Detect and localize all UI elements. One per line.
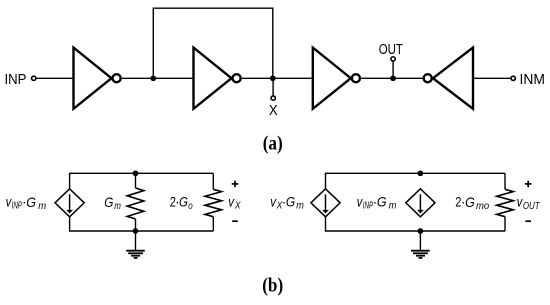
wire node A to U2 (153, 77, 193, 79)
svg-text:OUT: OUT (379, 41, 403, 58)
terminal OUT (391, 57, 395, 61)
svg-text:G: G (179, 195, 188, 210)
svg-text:v: v (270, 195, 276, 210)
wire node X to U3 (273, 77, 313, 79)
wire U1 to node A (122, 77, 154, 79)
svg-text:mo: mo (476, 201, 490, 212)
svg-text:m: m (38, 201, 46, 212)
wire U4 to terminal INM (473, 77, 511, 79)
wire top rail left circuit (70, 173, 214, 189)
terminal INP (32, 76, 36, 80)
current source I2 vX*Gm (311, 189, 340, 217)
wire node X to terminal X (272, 78, 274, 95)
label minus vX (232, 220, 238, 222)
node bottom Gm (133, 228, 139, 234)
svg-text:INM: INM (520, 72, 545, 89)
wire U3 to node OUT (361, 77, 393, 79)
node bottom I3 (418, 228, 424, 234)
node OUT (390, 75, 396, 81)
inverter U3 (313, 48, 360, 109)
svg-text:INP: INP (5, 70, 27, 87)
svg-text:v: v (228, 195, 234, 210)
inverter U4 (424, 48, 473, 109)
node A (150, 75, 156, 81)
resistor R3 2*Gmo (497, 173, 514, 231)
svg-text:G: G (104, 195, 113, 210)
terminal X (271, 96, 275, 100)
resistor R1 Gm (127, 173, 144, 231)
svg-text:m: m (296, 200, 304, 211)
svg-text:G: G (377, 194, 387, 210)
svg-text:OUT: OUT (523, 200, 541, 211)
svg-text:INP: INP (12, 199, 23, 211)
feedback wire node A to node X (153, 8, 272, 78)
label Gm (104, 195, 121, 211)
svg-text:v: v (517, 194, 523, 209)
terminal INM (511, 76, 515, 80)
label plus vOUT (525, 181, 532, 188)
svg-text:G: G (286, 194, 295, 210)
wire node OUT to terminal OUT (392, 61, 394, 78)
label vINP*Gm (left) (6, 194, 47, 212)
wire top rail right circuit (326, 173, 506, 189)
svg-text:(b): (b) (262, 274, 283, 297)
svg-text:v: v (357, 195, 363, 210)
svg-text:G: G (465, 194, 475, 210)
inverter U1 (74, 48, 121, 109)
ground right circuit (411, 231, 430, 258)
svg-text:m: m (389, 200, 397, 211)
label 2*Gmo (455, 194, 490, 212)
current source I1 vINP*Gm (55, 189, 84, 217)
svg-text:G: G (26, 194, 36, 210)
svg-text:(a): (a) (263, 132, 283, 155)
svg-text:m: m (114, 200, 121, 211)
label plus vX (232, 181, 239, 188)
ground left circuit (126, 231, 145, 258)
label vX*Gm (270, 194, 304, 212)
svg-text:X: X (234, 200, 241, 211)
resistor R2 2*Go (205, 173, 222, 231)
node top I3 (418, 170, 424, 176)
current source I3 vINP*Gm (406, 189, 435, 217)
node top Gm (133, 170, 139, 176)
wire INP to U1 (36, 77, 73, 79)
wire bottom rail left circuit (70, 217, 214, 231)
label vOUT (517, 194, 541, 211)
svg-text:o: o (188, 200, 192, 211)
label 2*Go (170, 194, 193, 211)
label vINP*Gm (right) (357, 194, 397, 212)
wire node OUT to U4 (393, 77, 423, 79)
wire bottom rail right circuit (326, 217, 506, 231)
label vX (228, 195, 241, 211)
wire U2 to node X (242, 77, 273, 79)
label minus vOUT (525, 220, 531, 222)
inverter U2 (194, 48, 241, 109)
svg-text:X: X (269, 101, 278, 118)
node X (270, 75, 276, 81)
